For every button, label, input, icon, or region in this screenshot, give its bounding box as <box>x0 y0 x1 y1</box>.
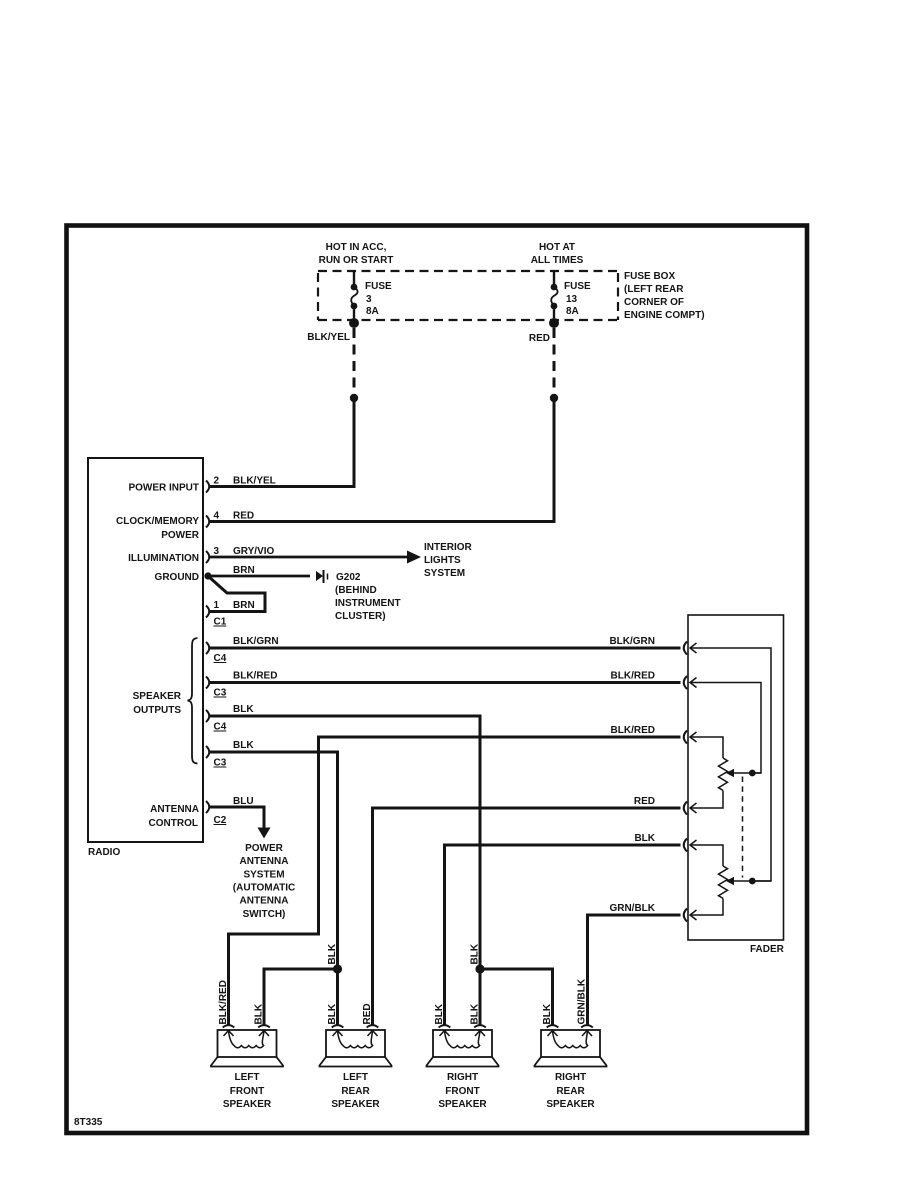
svg-text:8T335: 8T335 <box>74 1117 103 1128</box>
svg-text:BLK: BLK <box>233 740 254 751</box>
svg-text:1: 1 <box>214 600 220 611</box>
wire: fader BLK/RED to left-front speaker <box>229 737 681 1026</box>
node: right BLK junction dot <box>475 964 484 973</box>
svg-text:GRY/VIO: GRY/VIO <box>233 546 275 557</box>
label POWER ANTENNA SYSTEM (AUTOMATIC ANTENNA SWITCH) <box>233 843 295 920</box>
potentiometer R1 (front/rear balance upper) <box>719 758 728 790</box>
svg-text:C1: C1 <box>214 617 227 628</box>
dashed gang link between R1 and R2 <box>742 777 744 878</box>
label FUSE BOX (LEFT REAR CORNER OF ENGINE COMPT) <box>624 271 705 321</box>
SP4 voice coil <box>553 1031 588 1048</box>
SP2 left pin arrow <box>333 1031 343 1037</box>
svg-text:BLK/GRN: BLK/GRN <box>233 636 279 647</box>
wire GRY/VIO to interior lights <box>209 556 408 559</box>
svg-text:BRN: BRN <box>233 600 255 611</box>
wire: fader RED to left-rear speaker <box>373 808 681 1026</box>
SP3 left pin arrow <box>440 1031 450 1037</box>
svg-text:HOT AT: HOT AT <box>539 242 575 253</box>
svg-text:(AUTOMATIC: (AUTOMATIC <box>233 883 295 894</box>
node: R1 wiper dot <box>749 770 756 777</box>
svg-text:ANTENNA: ANTENNA <box>240 856 289 867</box>
arrow to power antenna system <box>258 828 271 839</box>
svg-text:RUN OR START: RUN OR START <box>319 255 394 266</box>
svg-text:8A: 8A <box>366 306 379 317</box>
SP4 left pin arrow <box>548 1031 558 1037</box>
svg-text:REAR: REAR <box>556 1086 585 1097</box>
svg-text:ANTENNA: ANTENNA <box>150 804 199 815</box>
speaker SP1 (left front) box <box>218 1030 277 1057</box>
svg-text:SPEAKER: SPEAKER <box>133 691 182 702</box>
svg-text:SPEAKER: SPEAKER <box>546 1099 595 1110</box>
svg-text:SYSTEM: SYSTEM <box>243 870 284 881</box>
radio left pin-name labels <box>116 483 200 830</box>
SP3 voice coil <box>445 1031 481 1048</box>
fader pin 3 arc (BLK/RED) <box>684 731 687 744</box>
svg-text:2: 2 <box>214 476 220 487</box>
node: fuse 3 output junction <box>349 318 359 328</box>
SP3 right pin arrow <box>475 1031 485 1037</box>
svg-text:13: 13 <box>566 294 578 305</box>
wire: RED solid to radio pin 4 <box>210 398 554 522</box>
fuse box dashed outline <box>318 271 618 320</box>
SP1 right pin arrow <box>259 1031 269 1037</box>
svg-text:ENGINE COMPT): ENGINE COMPT) <box>624 310 705 321</box>
brace for speaker outputs <box>188 638 198 764</box>
fader internal wire pin6 to pot2 bottom <box>690 899 723 916</box>
svg-text:POWER: POWER <box>245 843 284 854</box>
svg-text:CLUSTER): CLUSTER) <box>335 611 386 622</box>
svg-text:CONTROL: CONTROL <box>149 818 198 829</box>
svg-text:BLK: BLK <box>327 1003 338 1024</box>
fuse F3 value label <box>365 281 392 317</box>
svg-text:POWER: POWER <box>161 530 200 541</box>
svg-text:ANTENNA: ANTENNA <box>240 896 289 907</box>
svg-text:SPEAKER: SPEAKER <box>331 1099 380 1110</box>
fader pin 1 arrow <box>690 643 697 653</box>
wire: ground jog to pin 1 <box>208 576 265 612</box>
svg-text:RED: RED <box>362 1003 373 1024</box>
svg-text:FRONT: FRONT <box>230 1086 264 1097</box>
svg-text:RIGHT: RIGHT <box>447 1072 478 1083</box>
SP1 right pin arc <box>258 1025 270 1027</box>
node: RED splice dot <box>550 394 558 402</box>
svg-text:BLK/RED: BLK/RED <box>611 725 655 736</box>
wire: fader BLK to right-front speaker <box>445 845 681 1026</box>
svg-text:BLK: BLK <box>327 943 338 964</box>
SP3 magnet trapezoid <box>427 1057 499 1067</box>
SP3 left pin arc <box>439 1025 451 1027</box>
wire junction down to left-rear speaker left pin <box>336 969 339 1026</box>
svg-text:3: 3 <box>214 546 220 557</box>
radio pin 4 (CLOCK/MEMORY POWER) <box>206 516 209 528</box>
fader pin 5 arrow <box>690 840 697 850</box>
wire BLK (C3) to left-rear speaker junction <box>209 752 338 969</box>
svg-text:GRN/BLK: GRN/BLK <box>609 903 655 914</box>
svg-text:INTERIOR: INTERIOR <box>424 542 473 553</box>
label INTERIOR LIGHTS SYSTEM <box>424 542 473 579</box>
fader pin 3 arrow <box>690 732 697 742</box>
svg-text:LEFT: LEFT <box>343 1072 368 1083</box>
wire junction to left-front speaker right pin <box>264 969 338 1026</box>
wire BLK/GRN radio to fader <box>209 647 681 650</box>
fuse F13 value label <box>564 281 591 317</box>
SP2 voice coil <box>338 1031 373 1048</box>
svg-text:POWER INPUT: POWER INPUT <box>128 483 199 494</box>
svg-text:FRONT: FRONT <box>445 1086 479 1097</box>
svg-text:SPEAKER: SPEAKER <box>438 1099 487 1110</box>
svg-text:REAR: REAR <box>341 1086 370 1097</box>
radio pin ANTENNA CONTROL (BLU, C2) <box>206 801 209 813</box>
radio speaker pin BLK (C4) <box>206 710 209 722</box>
fader internal wire pin2 to pot1 wiper <box>690 683 761 774</box>
wire BLK (C4) to right-front speaker junction <box>209 716 480 969</box>
svg-text:C3: C3 <box>214 758 227 769</box>
SP2 right pin arrow <box>368 1031 378 1037</box>
svg-text:C3: C3 <box>214 688 227 699</box>
svg-text:RIGHT: RIGHT <box>555 1072 586 1083</box>
node: BLK/YEL splice dot <box>350 394 358 402</box>
node: R2 wiper dot <box>749 878 756 885</box>
wire: RED dashed segment <box>553 328 556 394</box>
svg-text:BRN: BRN <box>233 565 255 576</box>
svg-text:G202: G202 <box>336 572 361 583</box>
page border frame <box>67 226 808 1134</box>
svg-text:BLK/RED: BLK/RED <box>218 980 229 1024</box>
SP2 right pin arc <box>367 1025 379 1027</box>
wire BLU to power antenna <box>209 807 264 829</box>
label RIGHT REAR SPEAKER <box>546 1072 595 1110</box>
svg-text:SYSTEM: SYSTEM <box>424 568 465 579</box>
SP4 magnet trapezoid <box>535 1057 607 1067</box>
radio pin 3 (ILLUMINATION) <box>206 551 209 563</box>
svg-text:C4: C4 <box>214 722 227 733</box>
svg-text:FUSE: FUSE <box>365 281 392 292</box>
label LEFT REAR SPEAKER <box>331 1072 380 1110</box>
fader internal wire pin5 to pot2 top <box>690 845 723 866</box>
R1 wiper line <box>731 772 761 774</box>
R1 wiper arrow <box>726 769 734 778</box>
svg-text:BLK/YEL: BLK/YEL <box>233 476 276 487</box>
svg-text:OUTPUTS: OUTPUTS <box>133 705 181 716</box>
svg-text:FUSE: FUSE <box>564 281 591 292</box>
radio U1 box <box>88 458 203 842</box>
SP4 right pin arc <box>581 1025 593 1027</box>
SP4 left pin arc <box>547 1025 559 1027</box>
svg-text:C4: C4 <box>214 653 227 664</box>
SP2 magnet trapezoid <box>320 1057 392 1067</box>
svg-text:RED: RED <box>233 511 254 522</box>
radio pin 2 (POWER INPUT) <box>206 481 209 493</box>
SP1 voice coil <box>229 1031 265 1048</box>
svg-text:(LEFT REAR: (LEFT REAR <box>624 284 684 295</box>
fader pin 2 arc (BLK/RED) <box>684 676 687 689</box>
svg-text:CLOCK/MEMORY: CLOCK/MEMORY <box>116 516 199 527</box>
SP3 right pin arc <box>474 1025 486 1027</box>
svg-text:FUSE BOX: FUSE BOX <box>624 271 675 282</box>
radio speaker pin BLK/GRN (C4) <box>206 642 209 654</box>
radio GROUND pin node <box>204 572 211 579</box>
wire: fader GRN/BLK to right-rear speaker <box>588 915 681 1026</box>
speaker SP2 (left rear) box <box>326 1030 385 1057</box>
label G202 (BEHIND INSTRUMENT CLUSTER) <box>335 572 401 622</box>
svg-text:BLK: BLK <box>542 1003 553 1024</box>
svg-text:BLK/RED: BLK/RED <box>233 671 277 682</box>
svg-text:GROUND: GROUND <box>155 572 199 583</box>
R2 wiper line <box>731 880 771 882</box>
radio pin 1 (BRN) <box>206 606 209 618</box>
svg-text:BLU: BLU <box>233 796 254 807</box>
svg-text:4: 4 <box>214 511 220 522</box>
fader box <box>688 615 784 940</box>
svg-text:ILLUMINATION: ILLUMINATION <box>128 553 199 564</box>
SP4 right pin arrow <box>582 1031 592 1037</box>
wire junction down to right-front speaker right pin <box>479 969 482 1026</box>
label RIGHT FRONT SPEAKER <box>438 1072 487 1110</box>
fuse F13 symbol <box>551 271 558 318</box>
svg-text:BLK: BLK <box>470 943 481 964</box>
svg-text:BLK/RED: BLK/RED <box>611 671 655 682</box>
svg-text:3: 3 <box>366 294 372 305</box>
svg-text:ALL TIMES: ALL TIMES <box>531 255 584 266</box>
svg-text:BLK/YEL: BLK/YEL <box>307 332 350 343</box>
fader internal wire pin1 to pot2 wiper <box>690 648 771 881</box>
svg-text:8A: 8A <box>566 306 579 317</box>
radio speaker pin BLK/RED (C3) <box>206 677 209 689</box>
fader pin 4 arc (RED) <box>684 802 687 815</box>
svg-text:(BEHIND: (BEHIND <box>335 585 377 596</box>
SP1 magnet trapezoid <box>211 1057 283 1067</box>
R2 wiper arrow <box>726 877 734 886</box>
SP1 left pin arrow <box>224 1031 234 1037</box>
wire: BLK/YEL dashed segment <box>353 328 356 394</box>
svg-text:RED: RED <box>634 796 655 807</box>
svg-text:SPEAKER: SPEAKER <box>223 1099 272 1110</box>
fuse F3 symbol <box>351 271 358 318</box>
svg-text:LEFT: LEFT <box>235 1072 260 1083</box>
svg-text:RADIO: RADIO <box>88 847 120 858</box>
svg-text:C2: C2 <box>214 815 227 826</box>
arrow to interior lights system <box>407 551 421 564</box>
node: left BLK junction dot <box>333 964 342 973</box>
fader pin 1 arc (BLK/GRN) <box>684 642 687 655</box>
svg-text:HOT IN ACC,: HOT IN ACC, <box>326 242 387 253</box>
radio speaker pin BLK (C3) <box>206 746 209 758</box>
wire BLK/RED radio to fader <box>209 681 681 684</box>
fader pin 6 arc (GRN/BLK) <box>684 909 687 922</box>
svg-text:BLK: BLK <box>470 1003 481 1024</box>
SP2 left pin arc <box>332 1025 344 1027</box>
fader pin 5 arc (BLK) <box>684 839 687 852</box>
label LEFT FRONT SPEAKER <box>223 1072 272 1110</box>
svg-text:GRN/BLK: GRN/BLK <box>577 978 588 1024</box>
SP1 left pin arc <box>223 1025 235 1027</box>
fader internal wire pin3 to pot1 top <box>690 737 723 758</box>
svg-text:RED: RED <box>529 333 550 344</box>
svg-text:LIGHTS: LIGHTS <box>424 555 461 566</box>
fader internal wire pin4 to pot1 bottom <box>690 791 723 809</box>
svg-text:CORNER OF: CORNER OF <box>624 297 684 308</box>
svg-text:BLK: BLK <box>254 1003 265 1024</box>
svg-text:BLK: BLK <box>233 704 254 715</box>
label HOT IN ACC, RUN OR START <box>319 242 394 266</box>
wire BRN to ground <box>208 575 310 578</box>
svg-text:FADER: FADER <box>750 944 785 955</box>
label HOT AT ALL TIMES <box>531 242 584 266</box>
wire junction to right-rear speaker left pin <box>480 969 553 1026</box>
svg-text:BLK: BLK <box>634 833 655 844</box>
speaker SP3 (right front) box <box>433 1030 492 1057</box>
fader pin 2 arrow <box>690 678 697 688</box>
potentiometer R2 (front/rear balance lower) <box>719 866 728 898</box>
svg-text:BLK: BLK <box>434 1003 445 1024</box>
svg-text:SWITCH): SWITCH) <box>243 909 286 920</box>
speaker SP4 (right rear) box <box>541 1030 600 1057</box>
ground G202 symbol <box>316 570 328 583</box>
wire: BLK/YEL solid to radio pin 2 <box>210 398 354 487</box>
fader pin 4 arrow <box>690 803 697 813</box>
fader pin 6 arrow <box>690 910 697 920</box>
node: fuse 13 output junction <box>549 318 559 328</box>
svg-text:BLK/GRN: BLK/GRN <box>609 636 655 647</box>
svg-text:INSTRUMENT: INSTRUMENT <box>335 598 401 609</box>
